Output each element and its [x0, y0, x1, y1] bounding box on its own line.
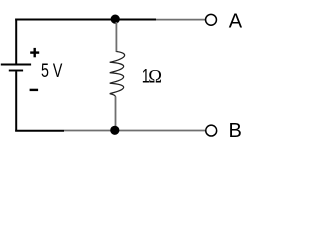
- terminal B circle: [206, 125, 217, 136]
- wire top (battery to node, thick): [15, 19, 156, 21]
- battery minus sign: [30, 89, 38, 91]
- svg-text:Ω: Ω: [148, 67, 162, 87]
- node bottom junction: [110, 126, 119, 135]
- node top junction: [111, 15, 120, 24]
- wire left lower (battery - lead): [15, 71, 17, 131]
- wire resistor bottom lead (thin): [115, 97, 117, 129]
- wire resistor top lead (thin): [115, 22, 117, 52]
- wire bottom (battery to node, thick): [15, 130, 64, 132]
- wire bottom to terminal B (thin): [64, 130, 205, 132]
- battery plate positive (long): [1, 64, 31, 66]
- svg-text:B: B: [229, 120, 242, 142]
- resistor R1 coil: [110, 52, 125, 97]
- svg-text:5 V: 5 V: [41, 60, 63, 82]
- battery V1: [1, 65, 31, 71]
- wire left upper (battery + lead): [15, 19, 17, 64]
- svg-text:A: A: [229, 11, 243, 33]
- wire top to terminal A (thin): [156, 19, 205, 21]
- label 1Ω (value): [142, 65, 162, 87]
- battery plate negative (short): [9, 70, 23, 72]
- battery plus sign: [30, 48, 39, 57]
- terminal A circle: [206, 14, 217, 25]
